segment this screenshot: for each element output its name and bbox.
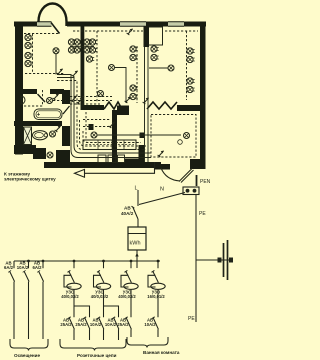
svg-text:40/0,03/2: 40/0,03/2 [61,294,79,299]
svg-text:6А/2: 6А/2 [4,265,14,270]
svg-text:АВ: АВ [124,206,131,211]
svg-text:L: L [135,186,138,192]
svg-text:Ванная комната: Ванная комната [143,350,180,355]
svg-text:6А/2: 6А/2 [32,265,42,270]
svg-text:10А/2: 10А/2 [105,322,117,327]
svg-text:10А/2: 10А/2 [90,322,102,327]
svg-text:Розеточные цепи: Розеточные цепи [77,353,117,358]
svg-text:25А/2: 25А/2 [60,322,72,327]
svg-text:PEN: PEN [200,179,211,185]
svg-text:N: N [160,187,164,193]
svg-text:PE: PE [188,316,195,322]
svg-text:PE: PE [199,211,206,217]
svg-text:40/0,03/2: 40/0,03/2 [118,294,136,299]
svg-text:Освещение: Освещение [14,353,40,358]
svg-text:10А/2: 10А/2 [17,265,29,270]
svg-text:электрическому щитку: электрическому щитку [4,176,56,181]
svg-text:25А/2: 25А/2 [75,322,87,327]
svg-text:kWh: kWh [130,241,141,247]
svg-text:40А/2: 40А/2 [121,211,134,216]
svg-text:25А/2: 25А/2 [117,322,129,327]
svg-text:16/0,01/2: 16/0,01/2 [147,294,165,299]
svg-text:10А/2: 10А/2 [144,322,156,327]
svg-text:40/0,03/2: 40/0,03/2 [91,294,109,299]
